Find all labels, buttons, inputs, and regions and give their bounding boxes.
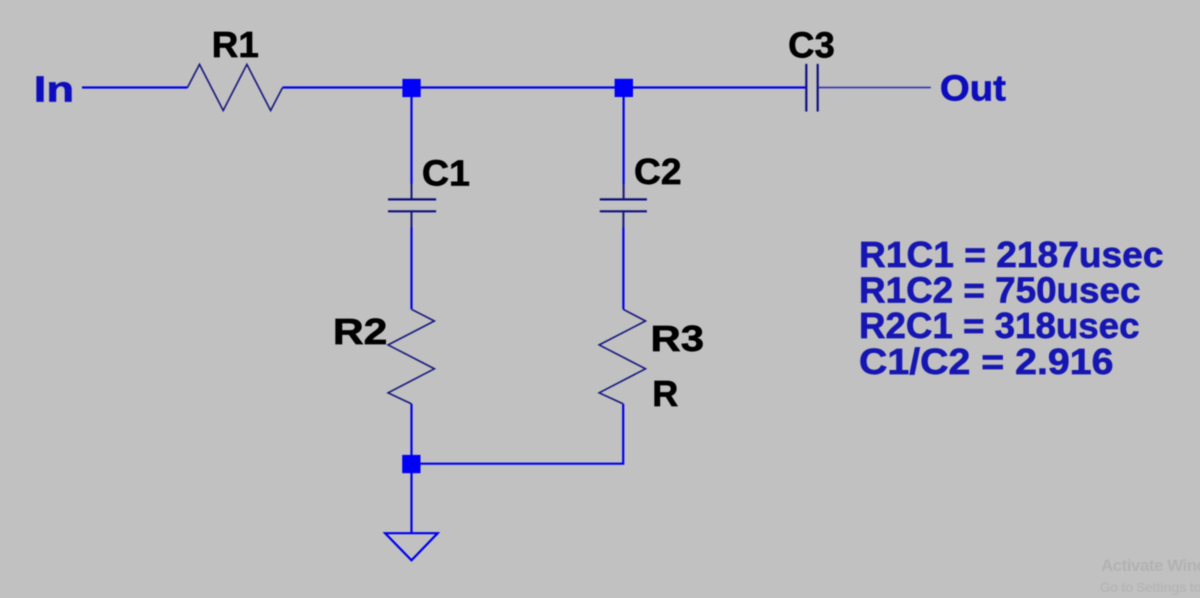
capacitor C1 [388, 199, 436, 211]
resistor R1 [188, 64, 283, 110]
wire In to R1 [82, 86, 188, 88]
wire C2 to R3 [622, 227, 624, 309]
C1 bottom lead [411, 211, 413, 227]
svg-text:C3: C3 [788, 25, 835, 66]
capacitor C3 [806, 64, 817, 112]
wire node B to C3 [633, 86, 806, 88]
wire node C to R3 branch [421, 404, 624, 464]
wire C3 to Out [818, 87, 931, 89]
svg-text:Activate Wind: Activate Wind [1101, 556, 1200, 575]
node C junction [402, 455, 420, 473]
capacitor C2 [600, 199, 647, 211]
svg-text:In: In [34, 69, 74, 110]
svg-text:R3: R3 [651, 318, 705, 359]
wire R1 to node A [283, 86, 404, 88]
wire node B down to C2 [622, 97, 624, 185]
wire C1 to R2 [410, 227, 412, 309]
C2 top lead [623, 184, 625, 199]
wire R2 to node C [410, 404, 412, 456]
svg-text:R2: R2 [333, 311, 388, 352]
svg-text:R1: R1 [212, 24, 259, 65]
C2 bottom lead [622, 211, 624, 227]
svg-text:Out: Out [940, 68, 1006, 109]
C1 top lead [411, 184, 413, 199]
wire node A down to C1 [410, 97, 412, 185]
ground [385, 533, 438, 560]
resistor R3 [599, 309, 645, 404]
resistor R2 [388, 309, 434, 404]
wire node C to ground [410, 473, 412, 533]
node B junction [615, 79, 633, 97]
svg-text:R: R [652, 373, 678, 414]
node A junction [402, 79, 420, 97]
svg-text:C1: C1 [422, 153, 470, 194]
svg-text:Go to Settings to a: Go to Settings to a [1100, 579, 1200, 595]
svg-text:C1/C2 = 2.916: C1/C2 = 2.916 [859, 341, 1114, 382]
wire node A to node B [421, 86, 616, 88]
svg-text:C2: C2 [634, 151, 682, 192]
